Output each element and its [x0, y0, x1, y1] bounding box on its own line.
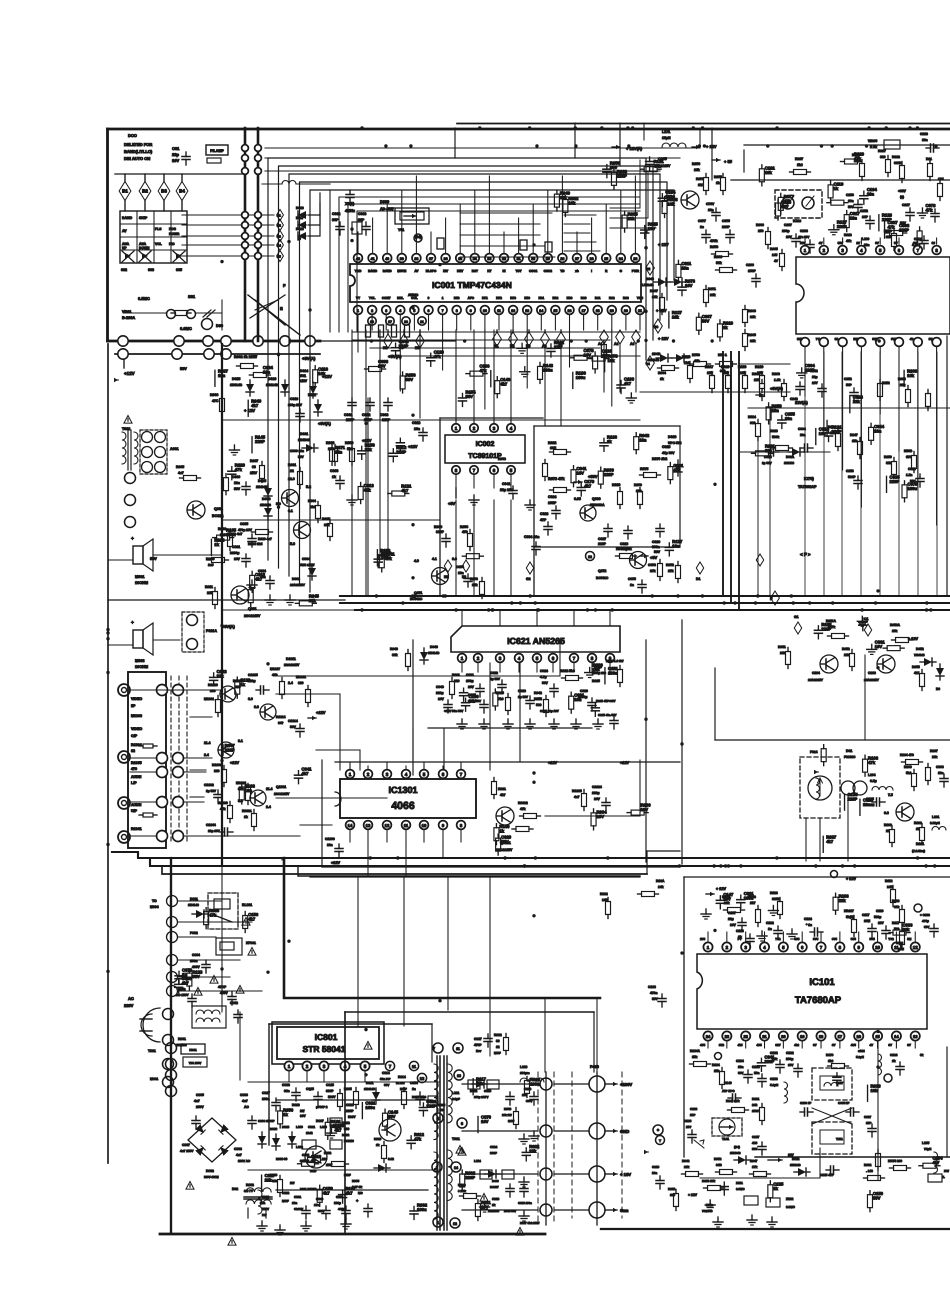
svg-text:4x7: 4x7 — [574, 795, 580, 799]
svg-text:47P: 47P — [540, 518, 547, 522]
svg-text:15: 15 — [553, 309, 557, 313]
svg-text:R62: R62 — [609, 296, 615, 300]
svg-text:15: 15 — [875, 1034, 880, 1039]
svg-text:R63: R63 — [623, 296, 629, 300]
svg-text:R0C9 1k5: R0C9 1k5 — [248, 542, 263, 546]
svg-text:STR 58041: STR 58041 — [303, 1044, 346, 1054]
svg-text:23: 23 — [725, 1034, 730, 1039]
svg-text:A4: A4 — [542, 344, 546, 348]
svg-text:16OHM: 16OHM — [135, 665, 148, 669]
svg-text:10n: 10n — [335, 449, 343, 454]
svg-text:D816: D816 — [292, 1103, 300, 1107]
svg-text:C622: C622 — [490, 671, 498, 675]
svg-text:1μ 50V: 1μ 50V — [518, 695, 529, 699]
svg-text:10k: 10k — [207, 591, 213, 595]
svg-text:R622 5k6: R622 5k6 — [560, 669, 575, 673]
svg-text:4k7: 4k7 — [323, 1190, 331, 1195]
svg-text:1k: 1k — [240, 682, 245, 687]
svg-text:4n7: 4n7 — [194, 1099, 200, 1103]
svg-text:R822: R822 — [494, 1033, 502, 1037]
svg-text:470μ: 470μ — [922, 919, 929, 923]
svg-text:R0322: R0322 — [518, 801, 528, 805]
svg-text:2.4: 2.4 — [204, 753, 209, 757]
svg-text:8V: 8V — [907, 1043, 911, 1047]
svg-text:TA7698AP: TA7698AP — [798, 485, 817, 489]
svg-text:40: 40 — [385, 257, 389, 261]
svg-text:R642: R642 — [534, 691, 542, 695]
svg-text:003: 003 — [148, 268, 154, 272]
svg-text:1N4248: 1N4248 — [260, 503, 271, 507]
svg-text:T2A 250V: T2A 250V — [189, 1061, 202, 1065]
svg-text:15μH: 15μH — [662, 136, 671, 140]
svg-text:SKIP: SKIP — [139, 216, 148, 220]
svg-text:47n 50V: 47n 50V — [798, 235, 809, 239]
svg-text:L104: L104 — [868, 773, 876, 777]
svg-text:D0U6: D0U6 — [262, 497, 271, 501]
svg-text:10n: 10n — [292, 1201, 297, 1205]
svg-text:R051: R051 — [778, 645, 786, 649]
svg-text:R73: R73 — [510, 296, 516, 300]
svg-text:I/P: I/P — [131, 704, 136, 708]
svg-text:16V: 16V — [597, 814, 605, 819]
svg-text:30P: 30P — [358, 218, 365, 222]
svg-text:C041: C041 — [502, 482, 510, 486]
svg-text:100μ: 100μ — [786, 1057, 793, 1061]
svg-text:4k7: 4k7 — [248, 916, 256, 921]
svg-text:21: 21 — [762, 1034, 767, 1039]
svg-text:16V: 16V — [723, 896, 731, 901]
svg-text:27: 27 — [575, 257, 579, 261]
svg-text:20k 2W: 20k 2W — [502, 1113, 512, 1117]
svg-text:HLSPC: HLSPC — [426, 269, 437, 273]
svg-text:IC001 TMP47C434N: IC001 TMP47C434N — [432, 280, 512, 290]
svg-text:3: 3 — [386, 772, 389, 777]
svg-text:C806: C806 — [240, 1093, 248, 1097]
svg-text:BAND: BAND — [122, 216, 133, 220]
svg-text:34: 34 — [473, 257, 477, 261]
svg-text:C125 47P: C125 47P — [820, 1173, 834, 1177]
svg-text:AUDH: AUDH — [131, 775, 142, 779]
svg-text:16V: 16V — [172, 158, 179, 163]
svg-text:14: 14 — [454, 1166, 458, 1170]
svg-text:4k7: 4k7 — [500, 793, 506, 797]
svg-text:1N404B: 1N404B — [730, 1151, 741, 1155]
svg-text:10n: 10n — [850, 216, 858, 221]
svg-text:R102: R102 — [914, 821, 922, 825]
svg-text:11: 11 — [404, 823, 409, 828]
svg-text:13: 13 — [420, 1076, 425, 1081]
svg-text:6.0MC: 6.0MC — [736, 1187, 745, 1191]
svg-text:C028: C028 — [412, 421, 420, 425]
svg-text:AD-J057: AD-J057 — [380, 207, 394, 211]
svg-text:12: 12 — [496, 1045, 500, 1049]
svg-text:50V: 50V — [501, 839, 509, 844]
svg-text:DCO: DCO — [128, 133, 137, 138]
svg-text:M663: M663 — [135, 659, 145, 663]
svg-text:R71: R71 — [482, 296, 488, 300]
svg-text:4k7: 4k7 — [301, 771, 309, 776]
svg-text:220P: 220P — [396, 449, 406, 454]
svg-text:D1311: D1311 — [286, 657, 296, 661]
svg-text:R005: R005 — [770, 247, 778, 251]
svg-text:12k: 12k — [652, 295, 658, 299]
svg-text:PLS: PLS — [155, 227, 162, 231]
svg-text:R059: R059 — [345, 441, 353, 445]
svg-text:1N414B: 1N414B — [790, 1163, 801, 1167]
svg-text:2: 2 — [306, 1064, 309, 1069]
svg-text:220V: 220V — [124, 1003, 134, 1008]
svg-text:R065: R065 — [748, 333, 756, 337]
svg-text:+5V(A): +5V(A) — [318, 421, 331, 426]
svg-text:31: 31 — [517, 257, 521, 261]
svg-text:10n: 10n — [681, 265, 689, 270]
svg-text:16: 16 — [856, 1034, 861, 1039]
svg-text:10k: 10k — [672, 314, 680, 319]
svg-text:100u: 100u — [908, 486, 918, 491]
svg-text:5.2: 5.2 — [306, 485, 311, 489]
svg-text:100μm: 100μm — [520, 1071, 530, 1075]
svg-text:47k: 47k — [854, 156, 862, 161]
svg-text:10k: 10k — [593, 667, 601, 672]
svg-text:C308: C308 — [936, 765, 944, 769]
svg-text:33n: 33n — [284, 1089, 290, 1093]
svg-text:TC89101P: TC89101P — [468, 453, 502, 460]
svg-text:TA7680AP: TA7680AP — [795, 995, 842, 1006]
svg-text:C134: C134 — [736, 1059, 744, 1063]
svg-text:5: 5 — [413, 309, 415, 313]
svg-text:KT: KT — [487, 269, 491, 273]
svg-text:O/P: O/P — [131, 734, 138, 738]
svg-text:MOF: MOF — [494, 1051, 501, 1055]
svg-text:0.5μ: 0.5μ — [870, 779, 877, 783]
svg-text:R53: R53 — [454, 296, 460, 300]
svg-text:16V: 16V — [468, 685, 475, 689]
svg-text:C063: C063 — [380, 413, 388, 417]
svg-text:10n: 10n — [263, 370, 271, 375]
svg-text:11.4: 11.4 — [204, 741, 211, 745]
svg-text:IC101: IC101 — [809, 977, 835, 988]
svg-text:7: 7 — [573, 656, 576, 661]
svg-text:10k: 10k — [668, 201, 676, 206]
svg-text:50V: 50V — [838, 241, 843, 245]
svg-text:16V: 16V — [819, 431, 827, 436]
svg-text:7N4246: 7N4246 — [914, 653, 925, 657]
svg-text:2SC1815Y: 2SC1815Y — [244, 614, 261, 618]
svg-text:R068: R068 — [714, 255, 722, 259]
svg-text:17: 17 — [582, 309, 586, 313]
svg-text:9#: 9# — [932, 241, 936, 245]
svg-text:47k: 47k — [235, 467, 243, 472]
svg-text:1V: 1V — [856, 241, 860, 245]
svg-text:PIC: PIC — [169, 242, 175, 246]
svg-text:50V: 50V — [654, 550, 661, 554]
svg-text:5V1: 5V1 — [300, 374, 306, 378]
svg-text:47k: 47k — [846, 239, 852, 243]
svg-text:YD: YD — [560, 269, 565, 273]
svg-text:10k: 10k — [568, 200, 576, 205]
svg-text:1n: 1n — [630, 583, 634, 587]
svg-text:35: 35 — [458, 257, 462, 261]
svg-text:4V5: 4V5 — [700, 1043, 706, 1047]
svg-text:12.6: 12.6 — [288, 477, 295, 481]
svg-text:400V: 400V — [338, 1207, 345, 1211]
svg-text:R1341: R1341 — [131, 827, 142, 831]
svg-text:15P: 15P — [866, 1121, 871, 1125]
svg-text:BRL: BRL — [397, 296, 403, 300]
svg-text:17: 17 — [388, 320, 392, 324]
svg-text:+ C136: + C136 — [920, 913, 930, 917]
svg-text:33n P.P: 33n P.P — [380, 1077, 390, 1081]
svg-text:C624: C624 — [540, 669, 548, 673]
svg-text:16V: 16V — [730, 923, 737, 927]
svg-text:* 1n: * 1n — [806, 923, 812, 927]
svg-text:Q072: Q072 — [598, 569, 606, 573]
svg-text:C242: C242 — [790, 397, 798, 401]
svg-text:12: 12 — [588, 555, 592, 559]
svg-text:10μ 35V: 10μ 35V — [208, 829, 221, 833]
svg-text:470P: 470P — [474, 1043, 482, 1047]
svg-text:330P: 330P — [436, 530, 445, 534]
svg-text:R00F: R00F — [322, 517, 330, 521]
svg-text:22k: 22k — [844, 653, 850, 657]
svg-text:R149 12k: R149 12k — [726, 1099, 740, 1103]
svg-text:16V: 16V — [481, 1205, 489, 1210]
svg-text:15k: 15k — [714, 1069, 720, 1073]
svg-text:C814: C814 — [382, 1071, 390, 1075]
svg-text:R056: R056 — [504, 1107, 512, 1111]
svg-text:C133: C133 — [770, 1077, 778, 1081]
svg-text:6: 6 — [552, 656, 555, 661]
svg-text:C107: C107 — [728, 911, 736, 915]
svg-text:R073 47k: R073 47k — [548, 477, 565, 481]
svg-text:+: + — [131, 620, 134, 626]
svg-text:230μ: 230μ — [334, 1201, 341, 1205]
svg-text:R246: R246 — [752, 372, 760, 376]
svg-text:1.0k: 1.0k — [774, 378, 781, 382]
svg-text:5k(B): 5k(B) — [846, 915, 854, 919]
svg-text:2: 2 — [367, 772, 370, 777]
svg-text:R1330: R1330 — [218, 801, 228, 805]
svg-text:151966: 151966 — [784, 461, 794, 465]
svg-text:Z121: Z121 — [736, 1181, 743, 1185]
svg-text:C137: C137 — [752, 1135, 760, 1139]
svg-text:C075: C075 — [722, 219, 730, 223]
svg-text:220P: 220P — [899, 227, 909, 232]
svg-text:1μ 50V: 1μ 50V — [490, 677, 501, 681]
svg-text:680: 680 — [750, 421, 756, 425]
svg-text:C132: C132 — [786, 1051, 794, 1055]
svg-text:C136: C136 — [690, 1107, 698, 1111]
svg-text:7: 7 — [389, 1064, 392, 1069]
svg-text:28: 28 — [560, 257, 564, 261]
svg-text:B101: B101 — [916, 842, 924, 846]
svg-text:R011: R011 — [205, 585, 213, 589]
svg-text:480: 480 — [752, 1141, 757, 1145]
svg-text:R122: R122 — [600, 892, 608, 896]
svg-text:R067: R067 — [650, 289, 658, 293]
svg-text:50P: 50P — [846, 383, 853, 387]
svg-text:C250: C250 — [846, 193, 854, 197]
svg-text:PILAMP: PILAMP — [210, 149, 224, 153]
svg-text:LN414B: LN414B — [642, 283, 654, 287]
svg-text:C004: C004 — [302, 557, 310, 561]
svg-text:10n: 10n — [414, 427, 420, 431]
svg-text:16V: 16V — [878, 921, 885, 925]
svg-text:26: 26 — [590, 257, 594, 261]
svg-text:50V: 50V — [465, 394, 473, 399]
svg-text:16V: 16V — [594, 797, 601, 801]
svg-text:YOD: YOD — [355, 269, 362, 273]
svg-text:50V: 50V — [388, 1114, 396, 1119]
svg-text:μF60P 2: μF60P 2 — [316, 1105, 328, 1109]
svg-text:4066: 4066 — [391, 800, 415, 812]
svg-text:10n: 10n — [863, 802, 871, 807]
svg-text:11: 11 — [497, 309, 501, 313]
svg-text:Gnn: Gnn — [620, 1208, 629, 1213]
svg-text:C124: C124 — [890, 1053, 898, 1057]
svg-text:C073: C073 — [648, 563, 656, 567]
svg-text:C252: C252 — [860, 209, 868, 213]
svg-text:50V: 50V — [384, 1083, 389, 1087]
svg-text:10M: 10M — [864, 919, 871, 923]
svg-text:+5V(A): +5V(A) — [302, 356, 316, 361]
svg-text:6: 6 — [442, 772, 445, 777]
svg-text:10n: 10n — [574, 697, 582, 702]
svg-text:L/P: L/P — [131, 781, 137, 785]
svg-text:2.4: 2.4 — [288, 681, 293, 685]
svg-text:D640: D640 — [430, 645, 438, 649]
svg-text:530V: 530V — [262, 1207, 269, 1211]
svg-text:POS: POS — [169, 227, 177, 231]
svg-text:1/6W: 1/6W — [752, 1109, 759, 1113]
svg-text:24: 24 — [706, 1034, 711, 1039]
svg-text:5V5: 5V5 — [794, 937, 800, 941]
svg-text:D026: D026 — [668, 435, 676, 439]
svg-text:AUDH: AUDH — [131, 803, 142, 807]
svg-text:1N414B: 1N414B — [266, 383, 279, 387]
svg-text:1k: 1k — [892, 1059, 896, 1063]
svg-text:500V: 500V — [318, 1209, 325, 1213]
svg-text:+ 12V: + 12V — [658, 242, 669, 247]
svg-text:AV: AV — [122, 229, 127, 233]
svg-text:22k: 22k — [309, 598, 317, 603]
svg-text:D01: D01 — [846, 749, 852, 753]
svg-text:(7.6.5km): (7.6.5km) — [912, 849, 925, 853]
svg-text:DOWN: DOWN — [139, 246, 150, 250]
svg-text:B3: B3 — [161, 189, 167, 194]
svg-text:13: 13 — [366, 823, 371, 828]
svg-text:D011: D011 — [308, 393, 316, 397]
svg-text:10k: 10k — [765, 170, 773, 175]
svg-text:12: 12 — [385, 823, 390, 828]
svg-text:10n: 10n — [874, 428, 882, 433]
svg-text:R263: R263 — [772, 372, 780, 376]
svg-text:R61: R61 — [595, 296, 601, 300]
svg-text:17k: 17k — [752, 1165, 757, 1169]
svg-text:RL801: RL801 — [242, 903, 252, 907]
svg-text:M661: M661 — [135, 575, 145, 579]
svg-text:22: 22 — [743, 1034, 748, 1039]
svg-text:R113: R113 — [770, 891, 778, 895]
svg-text:38: 38 — [414, 257, 418, 261]
svg-text:500V: 500V — [348, 1115, 356, 1119]
svg-text:D409: D409 — [492, 1179, 499, 1183]
svg-text:D010: D010 — [268, 377, 276, 381]
svg-text:R621: R621 — [452, 673, 460, 677]
svg-text:+100V: +100V — [620, 1082, 632, 1087]
svg-text:56k: 56k — [272, 1179, 277, 1183]
svg-text:1: 1 — [442, 296, 444, 300]
svg-text:R252: R252 — [882, 381, 890, 385]
svg-text:2/1V: 2/1V — [250, 471, 258, 475]
svg-text:3: 3 — [499, 656, 502, 661]
svg-text:3.1: 3.1 — [238, 739, 243, 743]
svg-text:M1303: M1303 — [131, 714, 142, 718]
svg-text:1N4B01: 1N4B01 — [298, 438, 310, 442]
svg-text:10: 10 — [483, 309, 487, 313]
svg-text:23: 23 — [633, 257, 637, 261]
svg-text:C060: C060 — [330, 469, 338, 473]
svg-text:10k: 10k — [907, 373, 915, 378]
svg-text:300n: 300n — [652, 545, 660, 549]
svg-text:100n: 100n — [190, 959, 198, 963]
svg-text:3: 3 — [323, 1064, 326, 1069]
svg-text:47k: 47k — [925, 207, 933, 212]
svg-text:7: 7 — [460, 772, 463, 777]
svg-text:103P: 103P — [548, 501, 557, 505]
svg-text:C006: C006 — [232, 475, 240, 479]
svg-text:C828: C828 — [346, 1103, 354, 1107]
svg-text:D622: D622 — [792, 1157, 800, 1161]
svg-text:100: 100 — [328, 447, 334, 451]
svg-text:220P: 220P — [722, 225, 731, 229]
svg-text:D802: D802 — [206, 1169, 214, 1173]
svg-text:R1303: R1303 — [212, 763, 222, 767]
svg-text:C807: C807 — [182, 1143, 190, 1147]
svg-text:8V2: 8V2 — [719, 1043, 725, 1047]
svg-text:B2: B2 — [142, 189, 148, 194]
svg-text:1k: 1k — [738, 935, 742, 939]
svg-text:4k: 4k — [910, 337, 914, 341]
svg-text:R022: R022 — [548, 441, 556, 445]
svg-text:19: 19 — [370, 320, 374, 324]
svg-text:7k6: 7k6 — [498, 697, 504, 701]
svg-text:220P: 220P — [832, 429, 842, 434]
svg-text:9V: 9V — [875, 241, 879, 245]
svg-text:R814: R814 — [398, 1075, 406, 1079]
svg-text:4.7μ: 4.7μ — [540, 675, 547, 679]
svg-text:2V7: 2V7 — [853, 337, 859, 341]
svg-text:P621A: P621A — [206, 629, 217, 633]
svg-text:9: 9 — [470, 309, 472, 313]
svg-text:25: 25 — [604, 257, 608, 261]
svg-text:6V: 6V — [929, 337, 933, 341]
svg-text:17: 17 — [838, 1034, 843, 1039]
svg-text:50V: 50V — [542, 681, 549, 685]
svg-text:12: 12 — [511, 309, 515, 313]
svg-text:5k6: 5k6 — [906, 771, 912, 775]
svg-text:20n: 20n — [708, 208, 714, 212]
svg-text:22k: 22k — [710, 293, 716, 297]
svg-text:C207: C207 — [784, 223, 792, 227]
svg-text:16V: 16V — [641, 807, 649, 812]
svg-text:4k7: 4k7 — [401, 488, 409, 493]
svg-text:R002: R002 — [864, 1163, 872, 1167]
svg-text:220P: 220P — [764, 1059, 774, 1064]
svg-text:R006: R006 — [756, 223, 764, 227]
svg-text:C119: C119 — [876, 909, 884, 913]
svg-text:4: 4 — [399, 309, 401, 313]
